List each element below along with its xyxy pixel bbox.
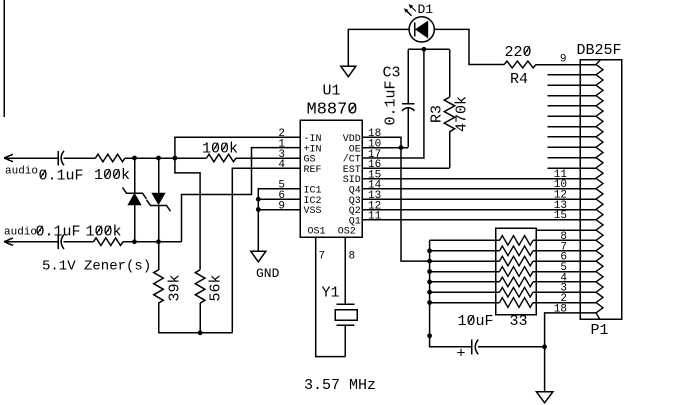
DB25 pin number 4	[560, 272, 567, 284]
DB25 stub row 5	[548, 115, 596, 117]
wire Q2 to DB25	[362, 209, 596, 211]
capacitor C3 leads	[407, 49, 409, 147]
U1 pin name IC1	[304, 186, 322, 197]
wire IC1 pin 5	[258, 189, 300, 251]
node junction 56k/rail	[198, 330, 203, 335]
label 33 (pack)	[510, 313, 528, 330]
wire DB25 pin18 row to ground	[545, 313, 596, 392]
wire REF pin 4 to rail	[232, 168, 300, 333]
DB25 stub row 3	[548, 95, 596, 97]
wire pack bus vertical	[430, 240, 472, 346]
DB25 pin number 18	[554, 303, 567, 315]
label DB25F	[577, 42, 622, 59]
DB25 stub row 4	[548, 105, 596, 107]
node junction IC2/gnd	[256, 197, 261, 202]
svg-text:VSS: VSS	[304, 206, 322, 217]
node junction audio2/zener1	[132, 239, 137, 244]
node junction bus row 20	[427, 269, 432, 274]
resistor pack element row 6	[430, 287, 596, 297]
svg-text:5.1V Zener(s): 5.1V Zener(s)	[42, 259, 151, 275]
U1 pin name +IN	[304, 144, 322, 155]
node junction VSS/gnd	[256, 207, 261, 212]
frame border left edge	[3, 0, 5, 117]
label 100k (audio1)	[94, 167, 130, 184]
svg-text:15: 15	[554, 210, 567, 222]
label GND	[256, 266, 280, 281]
resistor pack element row 3	[430, 256, 596, 266]
node A junction (to -IN)	[173, 156, 178, 161]
U1 pin number 16	[368, 159, 381, 171]
node junction audio1/zener2	[156, 156, 161, 161]
U1 pin name EST	[343, 165, 361, 176]
U1 pin number 14	[368, 180, 382, 192]
svg-text:18: 18	[554, 303, 567, 315]
svg-text:OS1: OS1	[308, 227, 326, 238]
capacitor C3 plates	[402, 104, 415, 111]
wire node A to -IN pin 2	[175, 137, 300, 158]
LED D1 circle	[409, 17, 434, 42]
svg-text:39k: 39k	[167, 274, 184, 301]
svg-text:+: +	[457, 346, 466, 363]
wire StD to DB25	[362, 178, 596, 180]
DB25 pin number 10	[554, 179, 567, 191]
U1 pin number 1	[278, 138, 285, 150]
resistor 100k (feedback to GS)	[207, 154, 301, 162]
wire node A to 56k	[175, 158, 200, 270]
node junction VDD/OE/C3	[399, 145, 404, 150]
svg-text:100k: 100k	[94, 167, 130, 184]
DB25 stub row 7	[548, 136, 596, 138]
capacitor 10uF polarized	[472, 340, 545, 355]
ground (chip GND)	[251, 251, 266, 261]
svg-text:/CT: /CT	[343, 154, 361, 166]
resistor R3 470k	[444, 49, 454, 168]
svg-text:33: 33	[510, 313, 528, 330]
label 0.1uF (audio1)	[39, 168, 84, 185]
svg-text:REF: REF	[304, 165, 322, 176]
DB25 pin number 3	[560, 283, 567, 295]
U1 pin name OS2	[338, 227, 356, 238]
resistor pack element row 1	[430, 236, 596, 246]
node junction bus row 19	[427, 259, 432, 264]
zener diode D left (cathode up)	[123, 158, 147, 242]
node junction audio2/zener2/39k	[156, 239, 161, 244]
label 0.1uF (audio2)	[36, 224, 81, 241]
U1 pin name SID	[343, 175, 361, 186]
op-amp/IC U1 M8870 body	[300, 120, 362, 237]
label 470k (R3)	[454, 96, 471, 132]
DB25 pin number 15	[554, 210, 567, 222]
svg-text:GND: GND	[256, 266, 280, 281]
wire EST pin 16	[362, 167, 449, 169]
label U1	[323, 83, 341, 100]
resistor pack element row 4	[430, 267, 596, 277]
capacitor 0.1uF (audio1)	[58, 151, 96, 166]
connector P1 pin sawtooth	[596, 60, 603, 320]
node junction bus row 22	[427, 290, 432, 295]
svg-text:9: 9	[278, 200, 285, 212]
svg-text:U1: U1	[323, 83, 341, 100]
svg-text:10uF: 10uF	[458, 313, 494, 330]
resistor network 33 body	[496, 228, 537, 315]
label 56k	[208, 274, 225, 301]
wire bias rail	[159, 332, 233, 334]
svg-text:R3: R3	[429, 105, 446, 123]
label 10uF	[458, 313, 494, 330]
wire D1 cathode to R4	[434, 29, 504, 64]
DB25 stub row 10	[548, 167, 596, 169]
U1 pin name OS1	[308, 227, 326, 238]
crystal Y1	[335, 304, 357, 357]
DB25 stub row 9	[548, 157, 596, 159]
resistor pack element row 2	[430, 246, 596, 256]
svg-text:9: 9	[560, 54, 567, 66]
U1 pin name VDD	[343, 134, 361, 145]
node audio1 input arrow	[4, 154, 58, 161]
U1 pin name /CT	[343, 154, 361, 166]
DB25 pin number 2	[560, 293, 567, 305]
label audio (input 2)	[4, 227, 37, 239]
U1 pin number 9	[278, 200, 285, 212]
U1 pin number 7	[319, 251, 326, 263]
U1 pin number 8	[349, 251, 356, 263]
svg-text:100k: 100k	[86, 224, 122, 241]
label 220 (R4)	[505, 44, 532, 61]
DB25 pin number 6	[560, 252, 567, 264]
svg-text:IC1: IC1	[304, 186, 322, 197]
svg-text:R4: R4	[510, 71, 528, 88]
node junction bus row 21	[427, 280, 432, 285]
svg-text:P1: P1	[591, 322, 609, 339]
label 3.57 MHz	[304, 377, 376, 394]
node junction cap/gnd	[542, 344, 547, 349]
node junction bus lower	[427, 333, 432, 338]
label audio (input 1)	[5, 166, 38, 178]
U1 pin name -IN	[304, 134, 322, 145]
label 100k (feedback)	[202, 141, 238, 158]
node junction bus row 23	[427, 300, 432, 305]
wire Q3 to DB25	[362, 198, 596, 200]
U1 pin number 5	[278, 180, 285, 192]
svg-text:+IN: +IN	[304, 144, 322, 155]
svg-text:11: 11	[368, 211, 382, 223]
LED D1 triangle and cathode	[415, 21, 428, 37]
U1 pin name Q4	[349, 186, 361, 197]
U1 pin number 10	[368, 138, 381, 150]
svg-text:audio: audio	[4, 227, 37, 239]
wire OS2 pin 8	[344, 237, 346, 304]
svg-text:8: 8	[349, 251, 356, 263]
U1 pin name GS	[304, 155, 316, 166]
U1 pin name IC2	[304, 196, 322, 207]
label M8870	[307, 101, 358, 120]
node junction /CT top	[422, 47, 427, 52]
DB25 pin number 9	[560, 54, 567, 66]
U1 pin name Q1	[349, 217, 361, 228]
svg-text:3.57 MHz: 3.57 MHz	[304, 377, 376, 394]
resistor pack element row 7	[430, 298, 596, 308]
wire Q1 to DB25	[362, 219, 596, 221]
svg-text:7: 7	[319, 251, 326, 263]
wire /CT pin 17	[362, 49, 424, 158]
label R4	[510, 71, 528, 88]
U1 pin number 17	[368, 149, 381, 161]
svg-text:470k: 470k	[454, 96, 471, 132]
U1 pin number 15	[368, 169, 381, 181]
wire pack common to DB25 pin 8 row	[536, 229, 596, 231]
DB25 pin number 11	[554, 169, 568, 181]
DB25 pin number 8	[560, 231, 567, 243]
svg-text:56k: 56k	[208, 274, 225, 301]
svg-text:100k: 100k	[202, 141, 238, 158]
resistor 56k	[195, 270, 205, 333]
wire VDD pin 18	[362, 137, 401, 147]
wire VSS pin 9	[258, 209, 300, 211]
ground (bottom right)	[536, 392, 553, 403]
svg-text:Q4: Q4	[349, 186, 361, 197]
U1 pin number 18	[368, 128, 381, 140]
svg-text:audio: audio	[5, 166, 38, 178]
LED D1 light arrows	[404, 4, 416, 16]
U1 pin number 6	[278, 190, 285, 202]
U1 pin number 12	[368, 200, 381, 212]
svg-text:DB25F: DB25F	[577, 42, 622, 59]
resistor 100k (audio2 series)	[94, 238, 182, 246]
wire IC2 pin 6	[258, 198, 300, 200]
connector P1 DB25F body	[580, 60, 622, 320]
DB25 stub row 6	[548, 126, 596, 128]
wire C3/R3 top rail	[408, 48, 449, 50]
wire audio2 to +IN pin 1	[182, 148, 301, 242]
DB25 stub row 2	[548, 84, 596, 86]
wire OE pin 10	[362, 147, 408, 149]
U1 pin name OE	[349, 144, 361, 155]
capacitor 0.1uF (audio2)	[58, 235, 94, 250]
resistor pack element row 5	[430, 277, 596, 287]
DB25 pin number 7	[560, 241, 567, 253]
DB25 pin number 5	[560, 262, 567, 274]
label C3	[383, 65, 401, 82]
U1 pin number 2	[278, 128, 285, 140]
wire OE node to pack bus	[401, 148, 430, 262]
label P1	[591, 322, 609, 339]
svg-text:OS2: OS2	[338, 227, 356, 238]
U1 pin number 3	[278, 149, 285, 161]
resistor 39k	[154, 242, 164, 333]
label + (10uF)	[457, 346, 466, 363]
svg-text:220: 220	[505, 44, 532, 61]
svg-text:4: 4	[278, 159, 285, 171]
label 39k	[167, 274, 184, 301]
U1 pin number 11	[368, 211, 382, 223]
DB25 stub row 1	[548, 74, 596, 76]
U1 pin number 13	[368, 190, 381, 202]
wire D1 anode to ground	[348, 29, 409, 66]
wire Q4 to DB25	[362, 188, 596, 190]
label D1	[418, 2, 434, 17]
resistor R4 220	[504, 61, 596, 68]
node audio2 input arrow	[4, 238, 58, 245]
label 0.1uF (C3)	[383, 80, 400, 125]
svg-text:C3: C3	[383, 65, 401, 82]
DB25 pin number 12	[554, 190, 567, 202]
label 5.1V Zener(s)	[42, 259, 151, 275]
svg-text:Y1: Y1	[322, 285, 340, 302]
label 100k (audio2)	[86, 224, 122, 241]
svg-text:0.1uF: 0.1uF	[383, 80, 400, 125]
U1 pin name Q2	[349, 206, 361, 217]
svg-text:D1: D1	[418, 2, 434, 17]
U1 pin number 4	[278, 159, 285, 171]
svg-text:OE: OE	[349, 144, 361, 155]
zener diode D right (cathode down)	[147, 158, 171, 242]
U1 pin name REF	[304, 165, 322, 176]
U1 pin name Q3	[349, 196, 361, 207]
wire OS1 pin 7	[316, 237, 346, 357]
DB25 pin number 13	[554, 200, 567, 212]
DB25 stub row 8	[548, 146, 596, 148]
ground (D1)	[341, 66, 356, 77]
resistor 100k (audio1 series)	[96, 154, 207, 162]
label R3	[429, 105, 446, 123]
svg-text:M8870: M8870	[307, 101, 358, 120]
node junction bus row 18	[427, 248, 432, 253]
node junction audio1/zener1	[132, 156, 137, 161]
label Y1	[322, 285, 340, 302]
U1 pin name VSS	[304, 206, 322, 217]
